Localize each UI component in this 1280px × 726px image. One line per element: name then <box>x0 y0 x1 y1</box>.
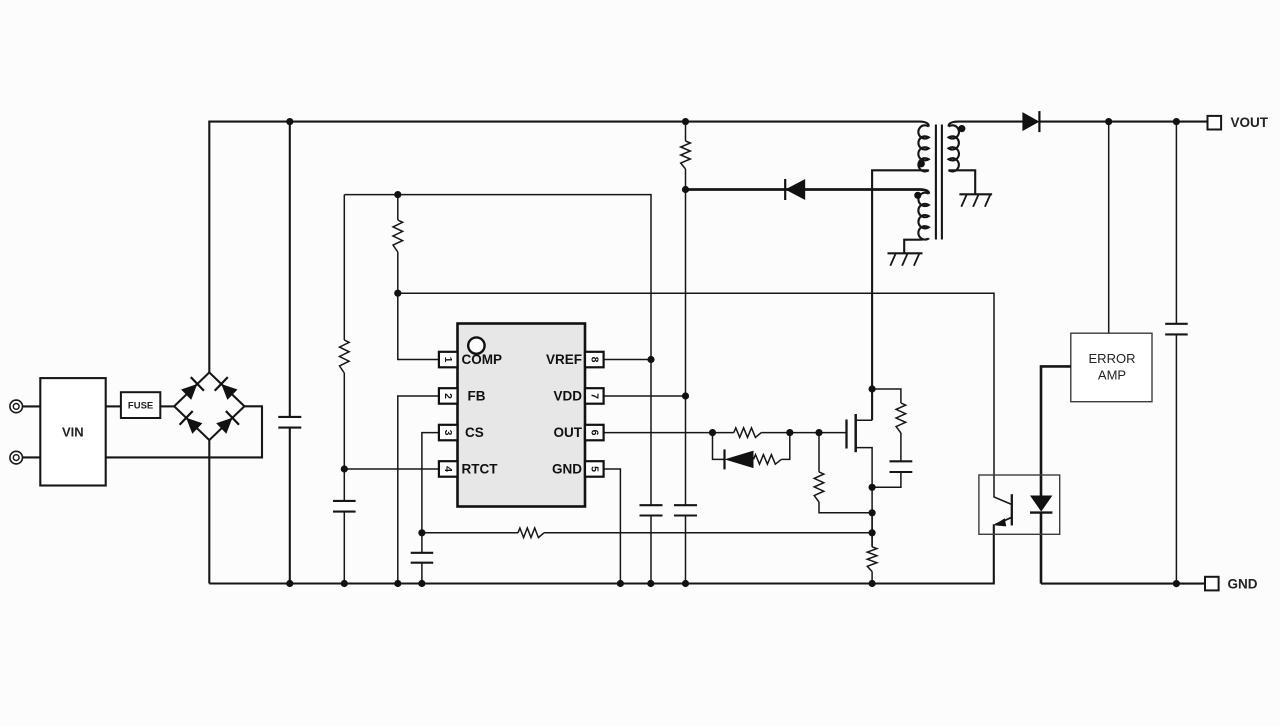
svg-text:ERROR: ERROR <box>1089 351 1136 366</box>
svg-text:GND: GND <box>552 462 582 477</box>
svg-text:GND: GND <box>1228 577 1258 592</box>
svg-text:RTCT: RTCT <box>462 462 499 477</box>
svg-text:8: 8 <box>588 357 600 363</box>
svg-text:7: 7 <box>588 393 600 399</box>
svg-text:VOUT: VOUT <box>1231 115 1269 130</box>
svg-text:1: 1 <box>442 357 454 363</box>
svg-text:COMP: COMP <box>462 352 503 367</box>
svg-text:VDD: VDD <box>553 389 582 404</box>
svg-text:6: 6 <box>588 430 600 436</box>
svg-text:AMP: AMP <box>1098 368 1126 383</box>
svg-text:FUSE: FUSE <box>128 401 153 412</box>
svg-text:2: 2 <box>442 393 454 399</box>
svg-text:5: 5 <box>588 466 600 472</box>
svg-text:CS: CS <box>465 425 484 440</box>
svg-text:4: 4 <box>442 466 454 472</box>
svg-text:OUT: OUT <box>554 425 583 440</box>
svg-text:3: 3 <box>442 430 454 436</box>
svg-text:VREF: VREF <box>546 352 582 367</box>
svg-text:FB: FB <box>468 389 486 404</box>
svg-text:VIN: VIN <box>62 425 84 440</box>
